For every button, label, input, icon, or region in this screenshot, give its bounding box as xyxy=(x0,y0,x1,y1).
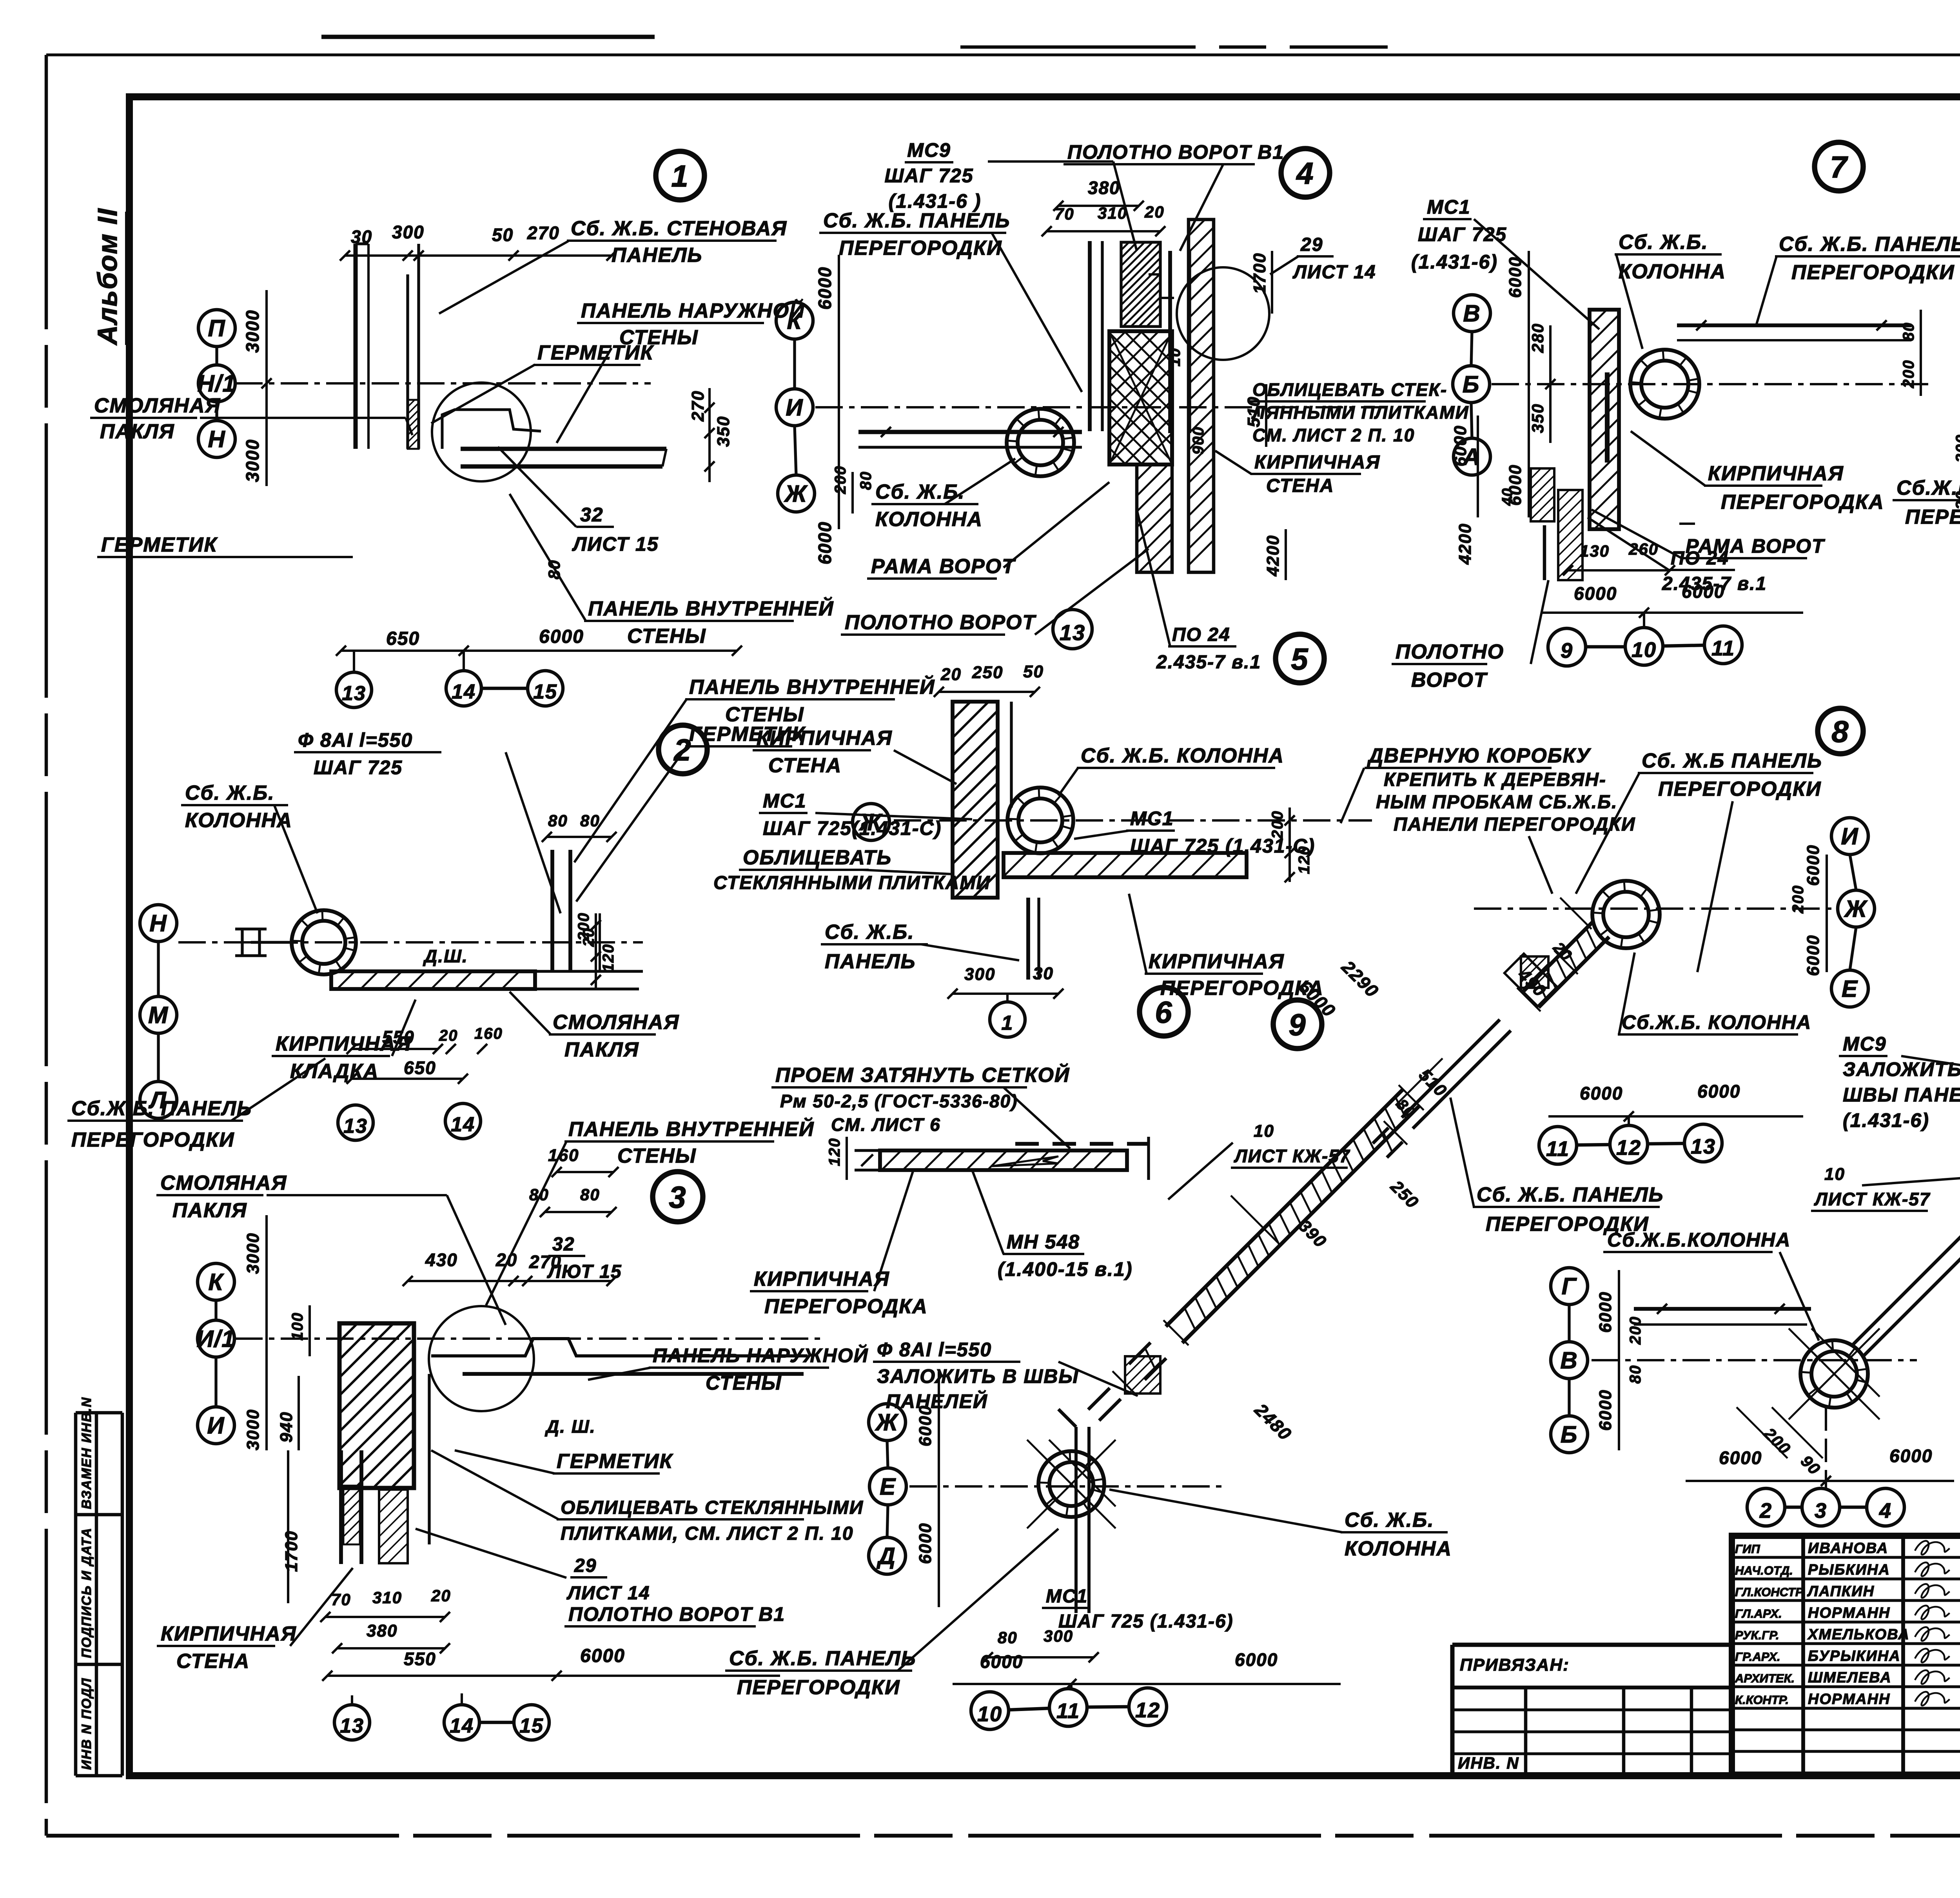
svg-text:80: 80 xyxy=(529,1185,549,1204)
svg-text:СМ. ЛИСТ 6: СМ. ЛИСТ 6 xyxy=(831,1114,941,1135)
svg-text:Е: Е xyxy=(1842,976,1858,1002)
svg-text:ДВЕРНУЮ КОРОБКУ: ДВЕРНУЮ КОРОБКУ xyxy=(1367,744,1592,767)
svg-text:ЗАЛОЖИТЬ В ШВЫ: ЗАЛОЖИТЬ В ШВЫ xyxy=(877,1365,1079,1387)
svg-text:10: 10 xyxy=(1166,348,1183,367)
svg-text:Сб.Ж.Б. ПАНЕЛЬ: Сб.Ж.Б. ПАНЕЛЬ xyxy=(71,1097,252,1120)
svg-text:350: 350 xyxy=(714,416,733,447)
svg-text:ЛАПКИН: ЛАПКИН xyxy=(1807,1583,1875,1600)
svg-text:КРЕПИТЬ К ДЕРЕВЯН-: КРЕПИТЬ К ДЕРЕВЯН- xyxy=(1384,769,1606,790)
svg-text:СТЕНА: СТЕНА xyxy=(1266,475,1334,496)
svg-text:10: 10 xyxy=(1632,638,1657,662)
svg-text:Сб. Ж.Б. СТЕНОВАЯ: Сб. Ж.Б. СТЕНОВАЯ xyxy=(571,217,787,240)
svg-text:6000: 6000 xyxy=(1235,1649,1278,1670)
svg-text:6000: 6000 xyxy=(815,267,835,310)
svg-text:РУК.ГР.: РУК.ГР. xyxy=(1735,1628,1779,1642)
svg-text:6000: 6000 xyxy=(916,1522,935,1564)
svg-text:13: 13 xyxy=(343,1115,368,1138)
svg-text:270: 270 xyxy=(688,390,708,422)
svg-text:30: 30 xyxy=(1033,964,1054,983)
svg-text:ШВЫ ПАНЕЛЕЙ: ШВЫ ПАНЕЛЕЙ xyxy=(1843,1083,1960,1106)
svg-text:70: 70 xyxy=(1054,205,1074,223)
svg-text:МС9: МС9 xyxy=(1843,1033,1887,1055)
svg-text:3000: 3000 xyxy=(242,310,263,353)
svg-text:ПЕРЕГОРОДКИ: ПЕРЕГОРОДКИ xyxy=(1905,506,1960,528)
svg-text:550: 550 xyxy=(382,1027,415,1047)
svg-text:ПОЛОТНО: ПОЛОТНО xyxy=(1396,641,1504,663)
svg-text:ГИП: ГИП xyxy=(1735,1542,1760,1556)
svg-text:350: 350 xyxy=(1528,403,1547,433)
svg-text:ЛЯННЫМИ ПЛИТКАМИ: ЛЯННЫМИ ПЛИТКАМИ xyxy=(1251,402,1469,423)
svg-text:НЫМ ПРОБКАМ СБ.Ж.Б.: НЫМ ПРОБКАМ СБ.Ж.Б. xyxy=(1376,792,1617,813)
svg-text:310: 310 xyxy=(372,1588,402,1607)
svg-text:11: 11 xyxy=(1056,1699,1080,1723)
svg-text:ПОДПИСЬ И ДАТА: ПОДПИСЬ И ДАТА xyxy=(79,1527,94,1658)
svg-text:СТЕНА: СТЕНА xyxy=(176,1650,250,1673)
svg-text:СТЕНЫ: СТЕНЫ xyxy=(627,625,706,648)
svg-text:6000: 6000 xyxy=(1697,1081,1740,1101)
svg-text:380: 380 xyxy=(1088,178,1120,198)
svg-text:РЫБКИНА: РЫБКИНА xyxy=(1808,1562,1890,1578)
svg-text:1: 1 xyxy=(1002,1012,1014,1034)
svg-text:310: 310 xyxy=(1098,204,1127,222)
svg-text:ОБЛИЦЕВАТЬ: ОБЛИЦЕВАТЬ xyxy=(743,846,892,869)
svg-text:В: В xyxy=(1463,300,1481,327)
svg-text:И: И xyxy=(207,1412,225,1439)
svg-text:КОЛОННА: КОЛОННА xyxy=(1619,260,1726,283)
svg-text:200: 200 xyxy=(1269,810,1286,839)
svg-text:РАМА ВОРОТ: РАМА ВОРОТ xyxy=(871,555,1016,578)
svg-text:5: 5 xyxy=(1291,642,1308,676)
svg-text:КИРПИЧНАЯ: КИРПИЧНАЯ xyxy=(754,1268,890,1290)
svg-text:4200: 4200 xyxy=(1263,535,1283,577)
svg-text:ИНВ N ПОДЛ: ИНВ N ПОДЛ xyxy=(79,1678,94,1770)
svg-text:6: 6 xyxy=(1155,995,1172,1029)
svg-text:Сб. Ж.Б. КОЛОННА: Сб. Ж.Б. КОЛОННА xyxy=(1081,744,1284,767)
svg-text:Н: Н xyxy=(208,426,225,452)
svg-text:ПОЛОТНО ВОРОТ В1: ПОЛОТНО ВОРОТ В1 xyxy=(1067,141,1284,163)
svg-text:ГР.АРХ.: ГР.АРХ. xyxy=(1735,1650,1780,1664)
svg-text:200: 200 xyxy=(1627,1316,1644,1345)
svg-text:Ж: Ж xyxy=(875,1409,899,1435)
svg-text:130: 130 xyxy=(1580,542,1610,560)
svg-text:Сб. Ж.Б.: Сб. Ж.Б. xyxy=(825,921,915,944)
svg-text:8: 8 xyxy=(1831,714,1849,749)
svg-text:ХМЕЛЬКОВА: ХМЕЛЬКОВА xyxy=(1807,1626,1910,1643)
svg-text:ПАНЕЛЬ НАРУЖНОЙ: ПАНЕЛЬ НАРУЖНОЙ xyxy=(581,299,805,322)
svg-text:9: 9 xyxy=(1289,1007,1306,1042)
svg-text:Сб. Ж.Б.: Сб. Ж.Б. xyxy=(1619,231,1708,254)
svg-text:3: 3 xyxy=(1815,1499,1827,1522)
svg-text:200: 200 xyxy=(832,465,849,494)
svg-text:Сб. Ж.Б. ПАНЕЛЬ: Сб. Ж.Б. ПАНЕЛЬ xyxy=(823,209,1010,232)
svg-text:80: 80 xyxy=(1627,1365,1644,1384)
svg-text:ПОЛОТНО ВОРОТ В1: ПОЛОТНО ВОРОТ В1 xyxy=(568,1603,785,1625)
svg-text:80: 80 xyxy=(1900,322,1917,341)
svg-text:6000: 6000 xyxy=(1889,1446,1933,1466)
svg-text:10: 10 xyxy=(1254,1121,1274,1141)
svg-text:СМОЛЯНАЯ: СМОЛЯНАЯ xyxy=(160,1172,287,1194)
svg-text:ЛИСТ 15: ЛИСТ 15 xyxy=(572,533,659,555)
svg-text:(1.431-6 ): (1.431-6 ) xyxy=(889,190,982,212)
svg-text:КОЛОННА: КОЛОННА xyxy=(875,508,983,531)
svg-text:6000: 6000 xyxy=(1596,1389,1615,1431)
svg-text:80: 80 xyxy=(545,559,563,579)
svg-text:ПЕРЕГОРОДКИ: ПЕРЕГОРОДКИ xyxy=(1658,778,1822,800)
svg-text:КИРПИЧНАЯ: КИРПИЧНАЯ xyxy=(161,1622,297,1645)
svg-text:650: 650 xyxy=(386,628,420,649)
svg-text:14: 14 xyxy=(451,1113,475,1136)
svg-text:МС1: МС1 xyxy=(1427,196,1471,218)
svg-text:АРХИТЕК.: АРХИТЕК. xyxy=(1735,1671,1795,1685)
svg-text:К: К xyxy=(787,308,803,334)
svg-text:СТЕКЛЯННЫМИ ПЛИТКАМИ: СТЕКЛЯННЫМИ ПЛИТКАМИ xyxy=(713,873,991,893)
svg-text:100: 100 xyxy=(289,1312,306,1341)
svg-text:МС1: МС1 xyxy=(763,790,807,812)
svg-text:1700: 1700 xyxy=(282,1530,301,1572)
svg-text:Сб. Ж.Б. ПАНЕЛЬ: Сб. Ж.Б. ПАНЕЛЬ xyxy=(1477,1183,1664,1206)
svg-text:6000: 6000 xyxy=(1574,583,1617,604)
svg-text:Сб. Ж.Б. ПАНЕЛЬ: Сб. Ж.Б. ПАНЕЛЬ xyxy=(1779,233,1960,256)
svg-text:900: 900 xyxy=(1190,426,1207,455)
svg-text:270: 270 xyxy=(527,223,560,243)
svg-text:15: 15 xyxy=(533,680,557,703)
svg-text:М: М xyxy=(148,1002,169,1028)
svg-text:ИНВ. N: ИНВ. N xyxy=(1458,1754,1519,1772)
svg-text:3: 3 xyxy=(669,1180,686,1214)
svg-text:ПЕРЕГОРОДКИ: ПЕРЕГОРОДКИ xyxy=(839,237,1002,259)
svg-text:ПАНЕЛЬ: ПАНЕЛЬ xyxy=(825,950,916,973)
svg-text:13: 13 xyxy=(1060,620,1085,645)
svg-text:12: 12 xyxy=(1135,1698,1160,1722)
svg-text:11: 11 xyxy=(1711,637,1735,660)
svg-text:80: 80 xyxy=(998,1628,1018,1647)
svg-text:7: 7 xyxy=(1830,150,1848,184)
svg-text:3000: 3000 xyxy=(243,1409,263,1450)
svg-text:10: 10 xyxy=(1824,1165,1845,1184)
svg-text:20: 20 xyxy=(940,665,962,684)
svg-text:300: 300 xyxy=(964,965,995,984)
svg-text:80: 80 xyxy=(548,811,568,830)
svg-text:120: 120 xyxy=(1296,846,1313,874)
svg-text:ЛИСТ КЖ-57: ЛИСТ КЖ-57 xyxy=(1234,1146,1350,1166)
svg-text:(1.431-6): (1.431-6) xyxy=(1843,1109,1929,1131)
svg-text:ПОЛОТНО ВОРОТ: ПОЛОТНО ВОРОТ xyxy=(845,611,1036,634)
svg-text:Сб. Ж.Б. ПАНЕЛЬ: Сб. Ж.Б. ПАНЕЛЬ xyxy=(729,1647,916,1670)
svg-text:ЛИСТ 14: ЛИСТ 14 xyxy=(1292,262,1376,283)
svg-text:СТЕНЫ: СТЕНЫ xyxy=(706,1372,782,1394)
svg-text:200: 200 xyxy=(1953,434,1960,463)
svg-text:СМОЛЯНАЯ: СМОЛЯНАЯ xyxy=(553,1011,679,1034)
svg-text:КИРПИЧНАЯ: КИРПИЧНАЯ xyxy=(1254,452,1380,473)
svg-text:ПАКЛЯ: ПАКЛЯ xyxy=(100,420,175,443)
svg-text:1700: 1700 xyxy=(1250,252,1269,294)
svg-text:120: 120 xyxy=(826,1138,843,1166)
svg-text:29: 29 xyxy=(1300,234,1323,255)
svg-text:80: 80 xyxy=(580,1185,600,1204)
svg-text:ПАНЕЛИ ПЕРЕГОРОДКИ: ПАНЕЛИ ПЕРЕГОРОДКИ xyxy=(1394,814,1635,835)
svg-text:ПАНЕЛЬ ВНУТРЕННЕЙ: ПАНЕЛЬ ВНУТРЕННЕЙ xyxy=(689,675,935,699)
svg-text:МС9: МС9 xyxy=(907,139,951,161)
svg-text:Ж: Ж xyxy=(784,481,808,507)
svg-text:ПАКЛЯ: ПАКЛЯ xyxy=(564,1038,639,1061)
svg-text:МС1: МС1 xyxy=(1130,807,1174,829)
svg-text:6000: 6000 xyxy=(539,626,584,647)
svg-text:Ф 8АI l=550: Ф 8АI l=550 xyxy=(298,729,413,751)
svg-text:ОБЛИЦЕВАТЬ СТЕК-: ОБЛИЦЕВАТЬ СТЕК- xyxy=(1252,379,1447,400)
svg-text:ПАНЕЛЕЙ: ПАНЕЛЕЙ xyxy=(886,1390,988,1412)
svg-text:ПРОЕМ ЗАТЯНУТЬ СЕТКОЙ: ПРОЕМ ЗАТЯНУТЬ СЕТКОЙ xyxy=(775,1063,1070,1087)
svg-text:10: 10 xyxy=(977,1702,1002,1726)
svg-text:В: В xyxy=(1560,1347,1578,1374)
svg-text:300: 300 xyxy=(392,222,425,242)
svg-text:Альбом II: Альбом II xyxy=(92,208,123,346)
svg-text:Сб. Ж.Б.: Сб. Ж.Б. xyxy=(185,782,275,804)
svg-text:80: 80 xyxy=(857,471,875,490)
svg-text:И: И xyxy=(1841,823,1858,849)
svg-text:ШАГ 725: ШАГ 725 xyxy=(1418,223,1507,245)
svg-text:3000: 3000 xyxy=(242,439,263,482)
svg-text:3000: 3000 xyxy=(243,1232,263,1274)
svg-text:П: П xyxy=(208,315,225,341)
svg-text:Ж: Ж xyxy=(1844,896,1868,922)
svg-text:БУРЫКИНА: БУРЫКИНА xyxy=(1808,1648,1901,1664)
svg-text:6000: 6000 xyxy=(1580,1083,1623,1103)
svg-text:Сб.Ж.Б. КОЛОННА: Сб.Ж.Б. КОЛОННА xyxy=(1622,1011,1811,1033)
svg-text:ВЗАМЕН ИНВ.N: ВЗАМЕН ИНВ.N xyxy=(79,1397,94,1509)
svg-text:И: И xyxy=(786,394,803,421)
svg-text:6000: 6000 xyxy=(1596,1291,1615,1333)
svg-text:20: 20 xyxy=(1144,203,1165,221)
svg-text:ШАГ 725 (1.431-6): ШАГ 725 (1.431-6) xyxy=(1058,1611,1234,1632)
svg-text:ПО 24: ПО 24 xyxy=(1172,624,1230,645)
svg-text:ПО 24: ПО 24 xyxy=(1671,548,1729,569)
svg-text:ПАНЕЛЬ НАРУЖНОЙ: ПАНЕЛЬ НАРУЖНОЙ xyxy=(653,1344,869,1366)
svg-text:ПАНЕЛЬ: ПАНЕЛЬ xyxy=(612,244,702,267)
svg-text:20: 20 xyxy=(431,1586,451,1605)
svg-text:Д: Д xyxy=(876,1543,896,1569)
svg-text:Е: Е xyxy=(880,1473,896,1500)
svg-text:200: 200 xyxy=(1789,885,1807,914)
svg-text:15: 15 xyxy=(519,1715,544,1737)
svg-text:2.435-7 в.1: 2.435-7 в.1 xyxy=(1156,652,1261,673)
svg-text:Д.Ш.: Д.Ш. xyxy=(423,946,468,966)
svg-text:ЛИСТ 14: ЛИСТ 14 xyxy=(566,1583,650,1604)
svg-text:32: 32 xyxy=(580,504,604,526)
svg-text:СТЕНА: СТЕНА xyxy=(768,754,842,777)
svg-text:40: 40 xyxy=(1499,488,1516,506)
svg-text:120: 120 xyxy=(600,944,617,972)
svg-text:КИРПИЧНАЯ: КИРПИЧНАЯ xyxy=(757,727,893,749)
svg-text:ГЛ.АРХ.: ГЛ.АРХ. xyxy=(1735,1607,1782,1620)
svg-text:СТЕНЫ: СТЕНЫ xyxy=(617,1145,697,1167)
svg-text:Рм 50-2,5 (ГОСТ-5336-80): Рм 50-2,5 (ГОСТ-5336-80) xyxy=(780,1091,1018,1111)
svg-text:ПЕРЕГОРОДКИ: ПЕРЕГОРОДКИ xyxy=(737,1676,900,1699)
svg-text:КИРПИЧНАЯ: КИРПИЧНАЯ xyxy=(1149,950,1285,973)
svg-text:6000: 6000 xyxy=(580,1646,625,1666)
svg-text:4: 4 xyxy=(1296,156,1314,191)
svg-text:ГЕРМЕТИК: ГЕРМЕТИК xyxy=(101,533,218,556)
svg-text:Г: Г xyxy=(1562,1273,1577,1299)
svg-text:ОБЛИЦЕВАТЬ СТЕКЛЯННЫМИ: ОБЛИЦЕВАТЬ СТЕКЛЯННЫМИ xyxy=(561,1497,864,1518)
svg-text:ШАГ 725: ШАГ 725 xyxy=(314,757,403,778)
svg-text:50: 50 xyxy=(492,225,514,245)
svg-text:80: 80 xyxy=(580,811,600,830)
svg-text:МН 548: МН 548 xyxy=(1007,1231,1080,1253)
svg-text:ПЕРЕГОРОДКИ: ПЕРЕГОРОДКИ xyxy=(1791,261,1955,284)
svg-text:СМОЛЯНАЯ: СМОЛЯНАЯ xyxy=(94,394,221,417)
svg-text:2: 2 xyxy=(1759,1499,1772,1522)
svg-text:250: 250 xyxy=(972,663,1003,682)
svg-text:ШМЕЛЕВА: ШМЕЛЕВА xyxy=(1808,1669,1892,1686)
svg-text:НАЧ.ОТД.: НАЧ.ОТД. xyxy=(1735,1564,1793,1577)
svg-text:ПЕРЕГОРОДКА: ПЕРЕГОРОДКА xyxy=(1721,491,1884,514)
svg-text:13: 13 xyxy=(342,682,366,705)
svg-text:6000: 6000 xyxy=(1804,844,1823,886)
svg-text:ЛИСТ КЖ-57: ЛИСТ КЖ-57 xyxy=(1814,1189,1931,1209)
svg-text:280: 280 xyxy=(1528,323,1547,353)
svg-text:Ф 8АI l=550: Ф 8АI l=550 xyxy=(877,1339,992,1361)
svg-text:14: 14 xyxy=(452,680,476,703)
svg-text:380: 380 xyxy=(367,1621,397,1640)
svg-text:МС1: МС1 xyxy=(1046,1586,1088,1607)
svg-text:ПЛИТКАМИ, СМ. ЛИСТ 2 П. 10: ПЛИТКАМИ, СМ. ЛИСТ 2 П. 10 xyxy=(561,1523,854,1544)
svg-text:4200: 4200 xyxy=(1455,523,1475,565)
svg-text:200: 200 xyxy=(1900,359,1917,388)
svg-text:32: 32 xyxy=(552,1234,575,1255)
svg-text:ИВАНОВА: ИВАНОВА xyxy=(1808,1540,1888,1557)
svg-text:Б: Б xyxy=(1561,1421,1578,1448)
svg-text:ПРИВЯЗАН:: ПРИВЯЗАН: xyxy=(1460,1655,1570,1675)
svg-text:4: 4 xyxy=(1879,1499,1892,1522)
svg-text:К: К xyxy=(209,1269,225,1295)
svg-text:6000: 6000 xyxy=(1719,1448,1762,1468)
svg-text:ПАНЕЛЬ ВНУТРЕННЕЙ: ПАНЕЛЬ ВНУТРЕННЕЙ xyxy=(588,597,834,620)
svg-text:160: 160 xyxy=(548,1146,579,1165)
svg-text:550: 550 xyxy=(404,1649,436,1669)
svg-text:260: 260 xyxy=(1628,540,1659,558)
svg-text:Сб.Ж.Б. ПАНЕЛЬ: Сб.Ж.Б. ПАНЕЛЬ xyxy=(1896,477,1960,499)
svg-text:Сб. Ж.Б.: Сб. Ж.Б. xyxy=(1345,1509,1434,1531)
svg-text:ГЛ.КОНСТР.: ГЛ.КОНСТР. xyxy=(1735,1585,1805,1599)
svg-text:6000: 6000 xyxy=(1451,425,1470,466)
svg-text:Сб.Ж.Б.КОЛОННА: Сб.Ж.Б.КОЛОННА xyxy=(1607,1229,1791,1251)
svg-text:(1.400-15 в.1): (1.400-15 в.1) xyxy=(998,1258,1132,1280)
svg-text:Сб. Ж.Б ПАНЕЛЬ: Сб. Ж.Б ПАНЕЛЬ xyxy=(1642,749,1822,772)
svg-text:Ж: Ж xyxy=(858,809,883,835)
svg-text:1: 1 xyxy=(671,159,689,193)
svg-text:940: 940 xyxy=(277,1412,296,1443)
svg-text:НОРМАНН: НОРМАНН xyxy=(1808,1691,1890,1707)
svg-text:11: 11 xyxy=(1546,1137,1570,1161)
svg-text:9: 9 xyxy=(1561,639,1573,662)
svg-text:6000: 6000 xyxy=(1804,934,1823,976)
svg-text:200: 200 xyxy=(575,912,592,941)
svg-text:6000: 6000 xyxy=(1682,581,1725,602)
svg-text:13: 13 xyxy=(340,1715,364,1737)
svg-text:Д. Ш.: Д. Ш. xyxy=(544,1416,596,1437)
svg-text:50: 50 xyxy=(1023,662,1044,681)
svg-text:13: 13 xyxy=(1691,1135,1716,1158)
svg-text:ЛЮТ 15: ЛЮТ 15 xyxy=(547,1261,622,1282)
svg-text:14: 14 xyxy=(450,1715,474,1737)
svg-text:20: 20 xyxy=(439,1027,458,1044)
svg-text:НОРМАНН: НОРМАНН xyxy=(1808,1605,1890,1621)
svg-text:6000: 6000 xyxy=(1506,256,1525,298)
svg-text:К.КОНТР.: К.КОНТР. xyxy=(1735,1693,1789,1707)
svg-text:650: 650 xyxy=(404,1058,436,1078)
svg-text:КИРПИЧНАЯ: КИРПИЧНАЯ xyxy=(1708,462,1844,485)
svg-text:Б: Б xyxy=(1463,371,1480,397)
svg-text:70: 70 xyxy=(331,1590,351,1609)
svg-text:(1.431-6): (1.431-6) xyxy=(1411,251,1498,273)
svg-text:ПЕРЕГОРОДКА: ПЕРЕГОРОДКА xyxy=(764,1295,928,1318)
svg-text:ПЕРЕГОРОДКИ: ПЕРЕГОРОДКИ xyxy=(71,1129,235,1151)
svg-text:430: 430 xyxy=(425,1250,458,1270)
svg-text:ГЕРМЕТИК: ГЕРМЕТИК xyxy=(557,1450,673,1473)
svg-text:6000: 6000 xyxy=(980,1651,1023,1672)
svg-text:6000: 6000 xyxy=(815,521,835,564)
svg-text:СМ. ЛИСТ 2 П. 10: СМ. ЛИСТ 2 П. 10 xyxy=(1252,425,1415,445)
svg-text:КОЛОННА: КОЛОННА xyxy=(1345,1537,1452,1560)
svg-text:29: 29 xyxy=(574,1555,597,1576)
svg-text:Н/1: Н/1 xyxy=(197,370,236,397)
svg-text:12: 12 xyxy=(1616,1136,1641,1159)
svg-text:Н: Н xyxy=(149,910,167,936)
svg-text:ВОРОТ: ВОРОТ xyxy=(1411,669,1488,691)
svg-text:СТЕНЫ: СТЕНЫ xyxy=(619,326,699,349)
svg-text:160: 160 xyxy=(474,1025,503,1042)
svg-text:20: 20 xyxy=(495,1250,517,1270)
svg-text:ПАКЛЯ: ПАКЛЯ xyxy=(172,1199,247,1222)
svg-text:И/1: И/1 xyxy=(196,1326,235,1352)
svg-text:ПАНЕЛЬ ВНУТРЕННЕЙ: ПАНЕЛЬ ВНУТРЕННЕЙ xyxy=(568,1117,814,1141)
svg-text:ШАГ 725: ШАГ 725 xyxy=(884,165,973,187)
